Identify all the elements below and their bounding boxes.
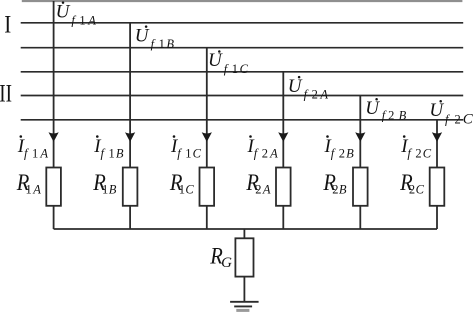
wire: resistor R2C to common rail bbox=[436, 206, 438, 229]
resistor R1A bbox=[46, 168, 61, 206]
current label I_f2B bbox=[324, 135, 355, 160]
bus I phase A line (clipped at top) bbox=[22, 0, 463, 2]
voltage label U_f1C bbox=[208, 50, 249, 76]
current arrow for I_f2C bbox=[432, 132, 442, 142]
current label I_f1C bbox=[170, 135, 202, 160]
wire: fault branch f2A from bus to resistor bbox=[282, 72, 284, 168]
current arrow for I_f1C bbox=[202, 132, 212, 142]
resistor R2B bbox=[353, 168, 368, 206]
current arrow for I_f1A bbox=[49, 132, 59, 142]
wire: fault branch f1B from bus to resistor bbox=[129, 23, 131, 168]
wire: rail down to R_G bbox=[243, 229, 245, 238]
bus II phase C line bbox=[21, 119, 464, 121]
current label I_f2A bbox=[247, 135, 279, 160]
svg-text:U: U bbox=[56, 2, 71, 23]
voltage label U_f2A bbox=[288, 76, 329, 102]
wire: RG to ground bbox=[243, 277, 245, 302]
wire: resistor R1C to common rail bbox=[206, 206, 208, 229]
ground symbol bbox=[230, 302, 259, 311]
current label I_f1A bbox=[17, 135, 49, 160]
svg-text:1C: 1C bbox=[179, 183, 195, 197]
current label I_f2C bbox=[400, 135, 432, 160]
resistor R2A bbox=[276, 168, 291, 206]
wire: resistor R2A to common rail bbox=[282, 206, 284, 229]
wire: common neutral rail bbox=[54, 228, 437, 230]
svg-text:1A: 1A bbox=[26, 183, 42, 197]
voltage label U_f1B bbox=[135, 25, 175, 51]
current arrow for I_f2B bbox=[355, 132, 365, 142]
resistor R1B bbox=[123, 168, 138, 206]
voltage label U_f2C bbox=[429, 100, 473, 127]
wire: fault branch f2C from bus to resistor bbox=[436, 120, 438, 168]
resistor R2C bbox=[430, 168, 445, 206]
svg-text:2B: 2B bbox=[332, 183, 347, 197]
wire: fault branch f1C from bus to resistor bbox=[206, 48, 208, 168]
svg-text:U: U bbox=[208, 50, 223, 71]
wire: resistor R1B to common rail bbox=[129, 206, 131, 229]
svg-text:U: U bbox=[135, 25, 150, 46]
resistor label R1A bbox=[16, 170, 41, 197]
wire: fault branch f2B from bus to resistor bbox=[359, 96, 361, 168]
resistor label RG bbox=[209, 244, 232, 271]
bus II phase B line bbox=[21, 95, 464, 97]
current arrow for I_f2A bbox=[278, 132, 288, 142]
bus I phase C line bbox=[21, 47, 464, 49]
current arrow for I_f1B bbox=[125, 132, 135, 142]
resistor RG (grounding resistor) bbox=[235, 238, 253, 276]
svg-text:1B: 1B bbox=[102, 183, 117, 197]
svg-text:G: G bbox=[221, 255, 232, 271]
current label I_f1B bbox=[93, 135, 124, 160]
svg-text:U: U bbox=[365, 98, 380, 119]
resistor label R2C bbox=[399, 170, 424, 197]
wire: resistor R2B to common rail bbox=[359, 206, 361, 229]
svg-text:II: II bbox=[0, 78, 12, 107]
bus I phase B line bbox=[21, 22, 464, 24]
resistor label R2B bbox=[323, 170, 347, 197]
resistor label R1C bbox=[169, 170, 194, 197]
resistor label R1B bbox=[92, 170, 116, 197]
svg-text:U: U bbox=[429, 100, 444, 121]
svg-text:2C: 2C bbox=[409, 183, 425, 197]
wire: resistor R1A to common rail bbox=[53, 206, 55, 229]
svg-text:I: I bbox=[4, 10, 11, 39]
resistor label R2A bbox=[246, 170, 271, 197]
bus II phase A line bbox=[21, 71, 464, 73]
resistor R1C bbox=[200, 168, 215, 206]
voltage label U_f2B bbox=[365, 98, 406, 123]
svg-text:U: U bbox=[288, 76, 303, 97]
wire: fault branch f1A from bus to resistor bbox=[53, 1, 55, 168]
svg-text:2A: 2A bbox=[255, 183, 271, 197]
voltage label U_f1A bbox=[56, 1, 97, 27]
